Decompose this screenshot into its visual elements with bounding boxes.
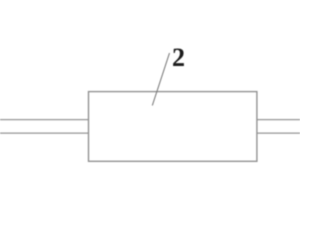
wire left upper	[0, 119, 89, 121]
svg-text:2: 2	[172, 43, 185, 72]
leader line to label 2	[152, 53, 169, 106]
wire right upper	[257, 119, 300, 121]
wire right lower	[257, 132, 300, 134]
component body 2 (rectangle)	[89, 92, 257, 162]
wire left lower	[0, 132, 89, 134]
